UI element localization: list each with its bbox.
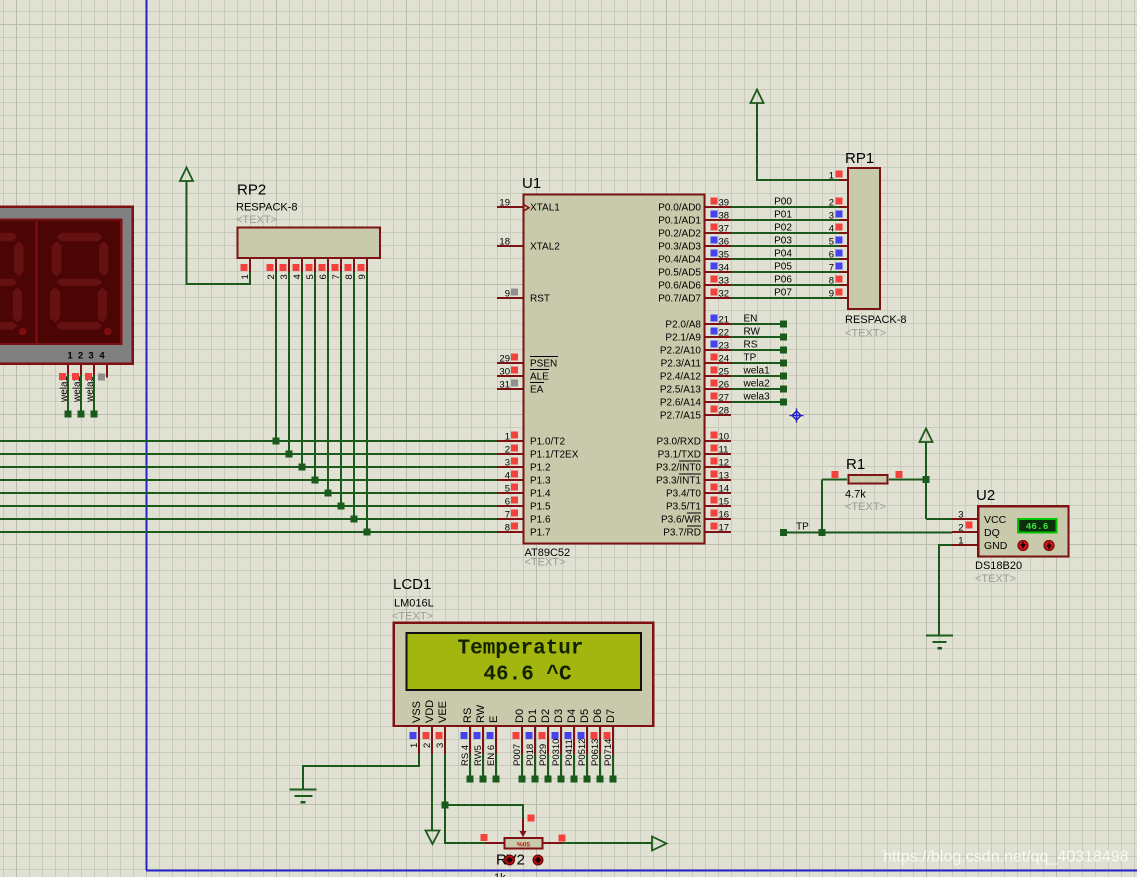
XTAL1 clock input symbol [524,205,530,212]
wire U2 GND [939,545,952,635]
wire net P00 [731,206,839,208]
7-segment display inner area [0,220,121,344]
svg-text:D6: D6 [592,709,604,723]
svg-text:RW: RW [744,327,761,338]
temperature sensor U2 body [978,506,1068,556]
svg-text:38: 38 [719,210,730,221]
LCD pin D6 [599,727,601,754]
U2 pin 1 GND [952,544,977,546]
wire end dot RS [467,776,474,783]
wire VCC to U2 [926,518,952,520]
svg-text:P0.7/AD7: P0.7/AD7 [658,294,701,305]
wire wela1 from display [67,375,69,414]
wire net P03 [731,245,839,247]
LCD pin D4 [573,727,575,754]
svg-text:32: 32 [719,288,730,299]
svg-text:1: 1 [67,351,73,362]
potentiometer RV2 body [505,838,543,849]
RP1 pin 8 [839,284,848,286]
svg-text:P1.7: P1.7 [530,528,551,539]
svg-text:TP: TP [796,522,809,533]
svg-text:37: 37 [719,223,730,234]
U1 pin 33 P0.6/AD6 (right) [705,284,731,286]
svg-text:P1.0/T2: P1.0/T2 [530,437,565,448]
U2 up button [1044,541,1054,551]
svg-text:RS: RS [744,340,758,351]
R1 right marker [896,471,903,478]
svg-text:P01: P01 [774,210,792,221]
junction dot R1/power [923,476,930,483]
svg-text:39: 39 [719,197,730,208]
U1 pin 24 P2.3/A11 (right) [705,362,731,364]
wire from LCD D6 [599,754,601,779]
U1 pin 7 P1.6 (left) [497,518,523,520]
wire end dot RS [780,347,787,354]
svg-text:18: 18 [499,236,510,247]
wire end dot D0 [519,776,526,783]
U1 pin 1 P1.0/T2 (left) [497,440,523,442]
RP2 pin markers [241,264,248,271]
svg-text:35: 35 [719,249,730,260]
svg-text:https://blog.csdn.net/qq_40318: https://blog.csdn.net/qq_40318498 [883,849,1129,866]
svg-text:P3.5/T1: P3.5/T1 [666,502,701,513]
wire end dot D7 [610,776,617,783]
RP1 pin 9 [839,297,848,299]
wire end dot E [493,776,500,783]
U1 pin 10 P3.0/RXD (right) [705,440,731,442]
wire net P01 [731,219,839,221]
wire from LCD RW [482,754,484,779]
wire from LCD RS [469,754,471,779]
svg-text:11: 11 [719,444,729,455]
LCD pin D2 [547,727,549,754]
svg-text:19: 19 [499,197,510,208]
svg-text:4: 4 [829,223,834,234]
LCD LCD1 body [394,623,654,726]
svg-text:24: 24 [719,353,730,364]
U1 pin 30 ALE (left) [497,375,523,377]
U1 pin 29 PSEN (left) [497,362,523,364]
wire from LCD D1 [534,754,536,779]
svg-text:9: 9 [829,288,834,299]
svg-text:25: 25 [719,366,730,377]
svg-text:P04: P04 [774,249,792,260]
svg-text:10: 10 [719,431,730,442]
svg-text:12: 12 [719,457,730,468]
svg-text:P3.0/RXD: P3.0/RXD [657,437,701,448]
wire end dot wela1 [780,373,787,380]
U2 temperature display [1018,519,1057,533]
wire wela2 from display [80,375,82,414]
U1 pin 22 P2.1/A9 (right) [705,336,731,338]
wire net P02 [731,232,839,234]
svg-text:RP2: RP2 [237,182,266,199]
svg-text:26: 26 [719,379,730,390]
svg-text:8: 8 [829,275,834,286]
svg-text:P3.6/WR: P3.6/WR [661,515,701,526]
sheet border horizontal blue line [146,870,1137,872]
wire end dot TP [780,529,787,536]
U1 pin 37 P0.2/AD2 (right) [705,232,731,234]
wire VEE to RV2 wiper [445,805,523,818]
wire from LCD E [495,754,497,779]
svg-text:D4: D4 [566,709,578,723]
svg-text:DS18B20: DS18B20 [975,560,1022,572]
svg-text:RW: RW [475,704,487,723]
svg-text:P3.4/T0: P3.4/T0 [666,489,701,500]
svg-text:VDD: VDD [424,700,436,723]
wire net P07 [731,297,839,299]
svg-text:P1.1/T2EX: P1.1/T2EX [530,450,579,461]
LCD pin VEE [444,727,446,754]
svg-text:22: 22 [719,327,730,338]
svg-text:LCD1: LCD1 [393,576,431,593]
svg-text:<TEXT>: <TEXT> [845,328,886,340]
U1 pin 39 P0.0/AD0 (right) [705,206,731,208]
U1 pin 13 P3.3/INT1 (right) [705,479,731,481]
U1 pin 36 P0.3/AD3 (right) [705,245,731,247]
wire RV2 right to terminal [562,842,652,844]
LCD pin RS [469,727,471,754]
svg-text:P0.5/AD5: P0.5/AD5 [658,268,701,279]
svg-text:13: 13 [719,470,730,481]
svg-text:U1: U1 [522,175,541,192]
svg-text:2: 2 [78,351,83,362]
svg-text:<TEXT>: <TEXT> [845,501,886,513]
svg-text:VSS: VSS [411,701,423,723]
wire from LCD D2 [547,754,549,779]
U1 pin 14 P3.4/T0 (right) [705,492,731,494]
wire net TP [731,362,784,364]
svg-text:LM016L: LM016L [394,598,434,610]
svg-text:Temperatur: Temperatur [457,638,583,661]
svg-text:DQ: DQ [984,527,1000,539]
wire power to RP1 pin 1 [757,103,839,180]
svg-text:1: 1 [505,431,510,442]
overline RD [687,525,701,527]
resistor R1 body [849,475,888,484]
svg-text:<TEXT>: <TEXT> [975,573,1016,585]
wire end dot TP [780,360,787,367]
resistor pack RP2 body [238,228,381,258]
svg-text:P1.3: P1.3 [530,476,551,487]
svg-text:%05: %05 [517,842,530,849]
svg-text:<TEXT>: <TEXT> [236,214,277,226]
overline EA [530,382,544,384]
svg-text:D0: D0 [514,709,526,723]
overline INT1 [679,473,701,475]
RP1 pin 3 [839,219,848,221]
wire from LCD D0 [521,754,523,779]
svg-text:P07: P07 [774,288,792,299]
svg-text:31: 31 [499,379,510,390]
svg-text:<TEXT>: <TEXT> [392,611,433,623]
7-segment pin stubs [67,365,69,376]
svg-text:P0.1/AD1: P0.1/AD1 [658,216,701,227]
svg-text:GND: GND [984,540,1008,552]
wire end dot D5 [584,776,591,783]
wire end dot wela3 [780,399,787,406]
wire LCD VEE down [444,754,446,805]
wire end dot RW [780,334,787,341]
RV2 wiper marker [528,815,535,822]
RV2 right marker [559,835,566,842]
svg-text:D3: D3 [553,709,565,723]
svg-text:P00: P00 [774,197,792,208]
wire end dot wela2 [78,411,85,418]
svg-text:2: 2 [422,743,433,748]
svg-text:EA: EA [530,385,544,396]
U1 pin 32 P0.7/AD7 (right) [705,297,731,299]
svg-text:46.6: 46.6 [1026,521,1049,532]
RP1 pin 5 [839,245,848,247]
svg-text:7: 7 [829,262,834,273]
RP1 pin 2 [839,206,848,208]
7-segment display frame [0,207,133,364]
U1 pin 8 P1.7 (left) [497,531,523,533]
svg-text:EN: EN [744,314,758,325]
svg-text:wela3: wela3 [743,392,771,403]
svg-text:29: 29 [499,353,510,364]
svg-text:2: 2 [829,197,834,208]
wire net EN [731,323,784,325]
wire net wela3 [731,401,784,403]
wire end dot wela1 [65,411,72,418]
svg-text:D2: D2 [540,709,552,723]
RV2 knob left [505,855,515,865]
svg-text:R1: R1 [846,456,865,473]
svg-text:21: 21 [719,314,730,325]
svg-text:P06: P06 [774,275,792,286]
LCD pin D1 [534,727,536,754]
svg-text:P2.0/A8: P2.0/A8 [665,320,701,331]
wire power down to U2 VCC [925,442,927,519]
wire end dot wela3 [91,411,98,418]
svg-text:7: 7 [505,509,510,520]
junction dot VEE [442,802,449,809]
wire net P04 [731,258,839,260]
wire net TP to U2 DQ [784,532,953,534]
right arrow terminal [652,837,667,851]
U1 pin 26 P2.5/A13 (right) [705,388,731,390]
wire from LCD D7 [612,754,614,779]
wire from LCD D4 [573,754,575,779]
svg-text:3: 3 [88,351,93,362]
svg-text:D5: D5 [579,709,591,723]
U1 pin 12 P3.2/INT0 (right) [705,466,731,468]
U1 pin 15 P3.5/T1 (right) [705,505,731,507]
U2 pin 2 DQ [952,531,977,533]
svg-text:P2.6/A14: P2.6/A14 [660,398,702,409]
LCD pin D0 [521,727,523,754]
U1 pin 25 P2.4/A12 (right) [705,375,731,377]
U1 pin 4 P1.3 (left) [497,479,523,481]
svg-text:1k: 1k [494,872,506,877]
U1 pin 23 P2.2/A10 (right) [705,349,731,351]
U1 pin 11 P3.1/TXD (right) [705,453,731,455]
svg-text:P02: P02 [774,223,792,234]
svg-text:3: 3 [505,457,510,468]
wire R1 down to TP net [821,480,823,533]
svg-text:16: 16 [719,509,730,520]
wire R1 right [889,479,926,481]
svg-text:RESPACK-8: RESPACK-8 [236,202,298,214]
svg-text:30: 30 [499,366,510,377]
wire net RW [731,336,784,338]
svg-text:P05: P05 [774,262,792,273]
U1 pin 2 P1.1/T2EX (left) [497,453,523,455]
7-segment pin markers [59,373,66,380]
svg-text:46.6 ^C: 46.6 ^C [483,664,572,687]
svg-text:P0.4/AD4: P0.4/AD4 [658,255,701,266]
7-segment digit (partial, left) [0,233,27,336]
wire LCD VSS to ground [303,754,419,789]
svg-text:5: 5 [829,236,834,247]
svg-text:4: 4 [99,351,105,362]
wire wela3 from display [93,375,95,414]
U1 pin 34 P0.5/AD5 (right) [705,271,731,273]
U1 pin 17 P3.7/RD (right) [705,531,731,533]
svg-text:3: 3 [958,509,963,520]
svg-text:5: 5 [505,483,510,494]
wire LCD VDD down [431,754,433,830]
svg-text:23: 23 [719,340,730,351]
wire net RS [731,349,784,351]
svg-text:U2: U2 [976,487,995,504]
svg-text:2: 2 [505,444,510,455]
junction dot TP/R1 [819,529,826,536]
svg-text:33: 33 [719,275,730,286]
svg-text:P0.0/AD0: P0.0/AD0 [658,203,701,214]
LCD pin D5 [586,727,588,754]
svg-text:P1.6: P1.6 [530,515,551,526]
U1 pin 9 RST (left) [497,297,523,299]
svg-text:XTAL2: XTAL2 [530,242,560,253]
svg-text:TP: TP [744,353,757,364]
svg-text:wela2: wela2 [743,379,771,390]
RP1 pin 1 [839,179,848,181]
sheet border vertical blue line [146,0,148,870]
svg-text:P2.1/A9: P2.1/A9 [665,333,701,344]
svg-text:P2.3/A11: P2.3/A11 [661,359,702,370]
svg-text:P0.2/AD2: P0.2/AD2 [658,229,701,240]
7-segment digit separator [36,221,38,344]
svg-text:9: 9 [505,288,510,299]
U1 pin 28 P2.7/A15 (right) [705,414,731,416]
U1 pin 3 P1.2 (left) [497,466,523,468]
overline INT0 [679,460,701,462]
U1 pin 21 P2.0/A8 (right) [705,323,731,325]
svg-text:P2.5/A13: P2.5/A13 [660,385,702,396]
wire power to RP2 pin 1 [187,181,251,284]
svg-text:<TEXT>: <TEXT> [525,557,566,569]
svg-text:2: 2 [958,522,963,533]
svg-text:P2.2/A10: P2.2/A10 [660,346,702,357]
wire end dot EN [780,321,787,328]
svg-text:ALE: ALE [530,372,549,383]
LCD pin RW [482,727,484,754]
svg-text:P1.4: P1.4 [530,489,551,500]
origin marker crosshair [790,409,804,423]
power terminal arrow (RP1 supply) [751,90,764,104]
svg-text:3: 3 [829,210,834,221]
wire net P06 [731,284,839,286]
svg-text:P03: P03 [774,236,792,247]
LCD pin E [495,727,497,754]
U1 pin 27 P2.6/A14 (right) [705,401,731,403]
wire end dot D2 [545,776,552,783]
svg-text:VCC: VCC [984,514,1007,526]
wire end dot wela2 [780,386,787,393]
U1 pin 6 P1.5 (left) [497,505,523,507]
LCD pin VDD [431,727,433,754]
svg-text:27: 27 [719,392,730,403]
wires RP2 pins 2-9 down to P1 bus [275,272,277,441]
wire from LCD D5 [586,754,588,779]
svg-text:P0.3/AD3: P0.3/AD3 [658,242,701,253]
U1 pin 35 P0.4/AD4 (right) [705,258,731,260]
wire net P05 [731,271,839,273]
wire R1 left [822,479,847,481]
svg-text:1: 1 [958,535,963,546]
wire net wela2 [731,388,784,390]
svg-text:1: 1 [240,274,251,279]
U1 pin 5 P1.4 (left) [497,492,523,494]
svg-text:1: 1 [409,743,420,748]
svg-text:4.7k: 4.7k [845,489,866,501]
RV2 left marker [481,834,488,841]
U1 pin 18 XTAL2 (left) [497,245,523,247]
svg-text:P3.2/INT0: P3.2/INT0 [656,463,701,474]
svg-text:14: 14 [719,483,730,494]
svg-text:P2.4/A12: P2.4/A12 [660,372,702,383]
svg-text:3: 3 [435,743,446,748]
wire end dot D3 [558,776,565,783]
svg-text:D7: D7 [605,709,617,723]
svg-text:PSEN: PSEN [530,359,557,370]
svg-text:1: 1 [829,170,834,181]
svg-text:E: E [488,716,500,723]
svg-text:34: 34 [719,262,730,273]
svg-text:VEE: VEE [437,701,449,723]
7-segment digit (full) [50,233,111,336]
svg-text:6: 6 [505,496,510,507]
svg-text:P3.3/INT1: P3.3/INT1 [656,476,701,487]
U1 pin 19 XTAL1 (left) [497,206,523,208]
ground symbol (LCD) [290,788,317,790]
wire net wela1 [731,375,784,377]
svg-text:P3.1/TXD: P3.1/TXD [658,450,701,461]
svg-text:4: 4 [505,470,510,481]
RP1 pin 4 [839,232,848,234]
ground symbol (U2) [926,634,953,636]
junction dots RP2 to P1 wires [273,438,280,445]
svg-text:28: 28 [719,405,730,416]
LCD pin D7 [612,727,614,754]
LCD pin D3 [560,727,562,754]
svg-text:wela1: wela1 [743,366,771,377]
U1 pin 16 P3.6/WR (right) [705,518,731,520]
svg-text:6: 6 [829,249,834,260]
wire from LCD D3 [560,754,562,779]
wire end dot D1 [532,776,539,783]
overline PSEN [530,356,558,358]
RV2 left stub [486,842,505,844]
svg-text:RS: RS [462,708,474,723]
U2 pin 3 VCC [952,518,977,520]
svg-text:P0.6/AD6: P0.6/AD6 [658,281,701,292]
svg-text:36: 36 [719,236,730,247]
